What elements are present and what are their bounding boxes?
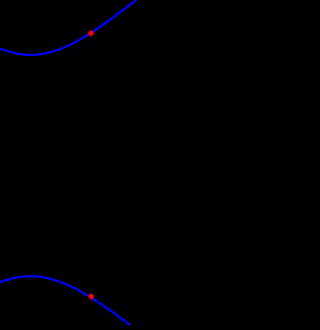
bottom hyperbola branch (blue curve) xyxy=(0,276,135,329)
top hyperbola branch (blue curve) xyxy=(0,0,140,55)
red point marker on bottom branch xyxy=(89,294,94,299)
red point marker on top branch xyxy=(88,31,93,36)
